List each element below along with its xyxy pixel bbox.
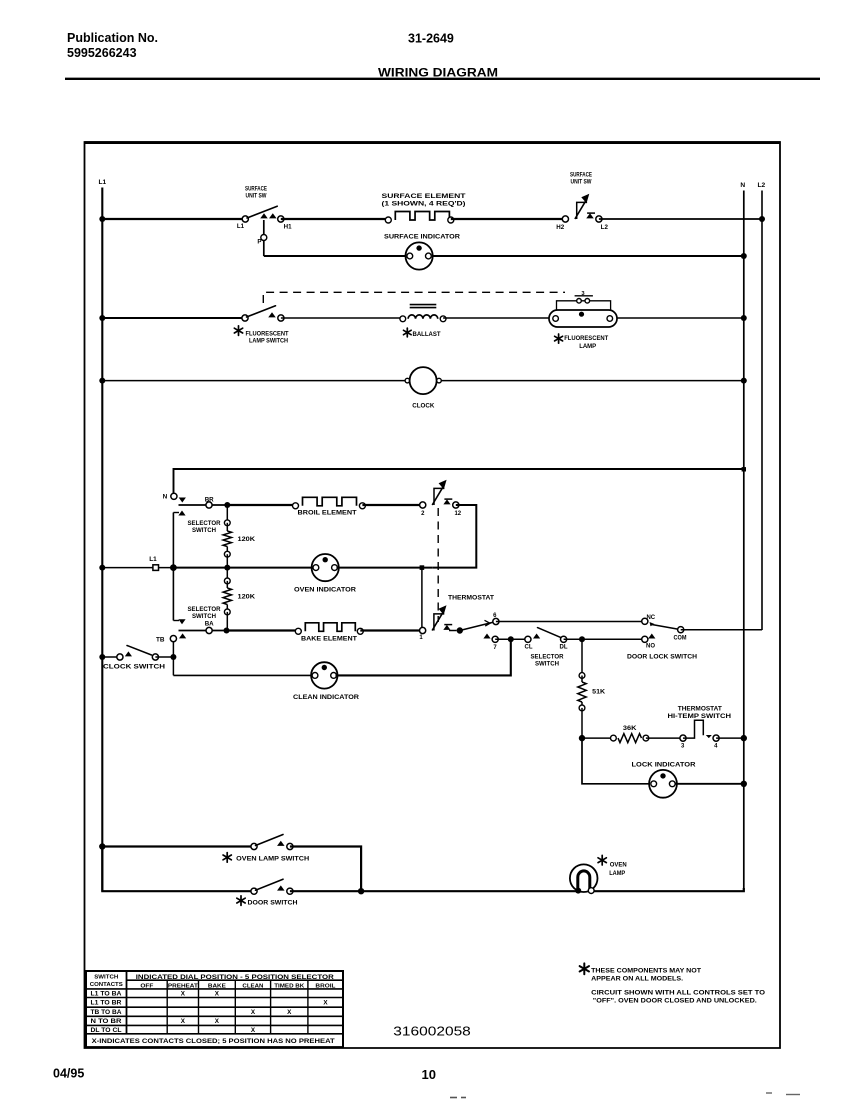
wire oven lamp switch to door row [290,847,361,892]
svg-text:BAKE ELEMENT: BAKE ELEMENT [301,636,357,643]
door lock switch [627,615,697,660]
svg-text:THERMOSTAT: THERMOSTAT [678,706,722,713]
surface element [382,193,466,223]
svg-text:31-2649: 31-2649 [408,32,454,46]
svg-text:HI-TEMP SWITCH: HI-TEMP SWITCH [668,713,732,720]
selector contact NO [642,634,656,650]
svg-text:P: P [257,238,261,245]
lamp surface indicator [384,234,460,270]
svg-text:FLUORESCENT: FLUORESCENT [564,335,608,342]
svg-text:36K: 36K [623,725,637,732]
wire L1 to oven lamp switch [99,843,254,849]
wire surface element to H2 [451,218,566,220]
svg-text:(1 SHOWN, 4 REQ'D): (1 SHOWN, 4 REQ'D) [382,200,466,207]
switch oven lamp switch [223,835,310,863]
clock motor [405,367,441,409]
svg-text:Publication No.: Publication No. [67,31,158,45]
wire L1 to surface unit switch [99,216,245,222]
wire bake element to thermostat 1 [360,629,422,631]
svg-text:L1: L1 [99,179,107,186]
svg-text:L1: L1 [149,556,157,563]
svg-text:N: N [163,494,168,501]
ballast inductor [400,305,446,338]
svg-text:CLOCK SWITCH: CLOCK SWITCH [103,664,165,671]
header rule [65,78,820,80]
note components asterisk [580,963,701,982]
svg-text:PREHEAT: PREHEAT [168,983,198,989]
svg-text:DOOR LOCK SWITCH: DOOR LOCK SWITCH [627,653,697,660]
svg-text:DL TO CL: DL TO CL [91,1027,122,1034]
wire 12 down to oven indicator row [433,505,477,568]
svg-text:SELECTOR: SELECTOR [188,606,222,613]
svg-text:BROIL ELEMENT: BROIL ELEMENT [298,510,357,517]
header title WIRING DIAGRAM [378,68,498,80]
svg-text:OVEN INDICATOR: OVEN INDICATOR [294,586,356,593]
switch surface unit sw left [237,186,292,231]
svg-text:LAMP SWITCH: LAMP SWITCH [249,338,288,345]
selector contact table [86,971,343,1047]
wire surface indicator to N bus [433,253,747,259]
thermostat label [448,595,494,602]
svg-text:OVEN LAMP SWITCH: OVEN LAMP SWITCH [236,855,310,862]
switch door switch [237,879,298,906]
node N label [740,182,745,189]
svg-text:TIMED BK: TIMED BK [274,983,305,989]
svg-text:L1 TO BR: L1 TO BR [91,1000,123,1007]
diagram border box [85,142,781,1048]
resistor 120K upper [223,505,255,568]
svg-text:5995266243: 5995266243 [67,46,137,60]
svg-text:UNIT SW: UNIT SW [246,193,268,200]
node BA [179,621,227,634]
selector contact 7 [483,634,498,651]
svg-text:APPEAR ON ALL MODELS.: APPEAR ON ALL MODELS. [591,976,683,983]
svg-text:L1: L1 [237,223,245,230]
wire oven feed top [174,467,747,496]
wire 51K junction down to lock indicator [582,738,652,784]
svg-text:120K: 120K [238,536,256,543]
svg-text:CONTACTS: CONTACTS [90,982,123,988]
svg-text:L2: L2 [601,224,609,231]
lamp oven lamp [570,855,627,893]
switch fluorescent lamp switch [234,306,288,345]
svg-text:CIRCUIT SHOWN WITH ALL CONTROL: CIRCUIT SHOWN WITH ALL CONTROLS SET TO [591,990,765,997]
thermostat hi-temp switch [668,706,732,750]
svg-text:THERMOSTAT: THERMOSTAT [448,595,494,602]
resistor 51K [578,639,606,738]
wire 7 to CL [495,636,528,642]
svg-text:H2: H2 [556,224,564,231]
wire L2 bus [761,191,763,631]
svg-text:UNIT SW: UNIT SW [571,179,593,186]
wire N bus [743,191,745,891]
thermostat upper contacts 2-12 [420,480,462,517]
wire H1 to surface element [281,218,389,220]
footer date [53,1067,84,1081]
svg-text:LAMP: LAMP [609,870,625,877]
wire TB down to clean row [172,642,174,676]
resistor 36K [579,725,649,743]
svg-text:L2: L2 [758,182,766,189]
wire 36K to hi-temp switch 3 [646,737,683,739]
wire oven indicator to corner [337,565,433,570]
wire clean indicator to selector junction [336,639,511,675]
selector switch pivot L1 [99,556,177,571]
svg-text:OVEN: OVEN [610,861,628,868]
switch surface unit sw right [556,171,608,231]
selector contacts CL DL [525,628,568,668]
svg-text:X-INDICATES CONTACTS CLOSED; 5: X-INDICATES CONTACTS CLOSED; 5 POSITION … [92,1038,335,1045]
svg-text:NO: NO [646,644,655,650]
wire broil element to thermostat 2 [362,504,422,506]
wire L1 to clock [99,378,409,384]
wire switch to ballast [281,317,403,319]
wire BR to broil element [224,502,295,508]
wire oven lamp to N bus corner [594,888,744,891]
thermostat contact 6 [493,613,499,624]
svg-text:SELECTOR: SELECTOR [188,520,222,527]
wire P to surface indicator [264,255,406,257]
selector switch bracket [173,511,221,625]
svg-text:SELECTOR: SELECTOR [531,653,565,660]
node L2 label [758,182,766,189]
svg-text:04/95: 04/95 [53,1067,84,1081]
wire ballast to fluorescent lamp [443,317,549,319]
footer page number [422,1068,437,1082]
svg-text:OFF: OFF [140,983,153,989]
svg-text:TB TO BA: TB TO BA [91,1009,123,1016]
wire L1 bus [101,188,103,892]
wire clock to N bus [441,378,747,384]
svg-text:SWITCH: SWITCH [94,974,118,980]
wire BA to bake element [224,628,299,634]
svg-text:SWITCH: SWITCH [192,527,217,534]
lamp clean indicator [293,662,359,701]
wire door switch to oven lamp [290,888,577,894]
svg-text:CL: CL [525,645,533,651]
svg-text:10: 10 [422,1068,437,1082]
svg-text:N TO BR: N TO BR [91,1018,123,1025]
bake element [295,623,363,643]
svg-text:COM: COM [674,635,687,641]
resistor 120K lower [223,568,255,631]
svg-text:CLEAN INDICATOR: CLEAN INDICATOR [293,694,359,701]
svg-text:L1 TO BA: L1 TO BA [91,991,123,998]
svg-text:LOCK INDICATOR: LOCK INDICATOR [632,761,696,768]
note circuit shown [591,990,765,1005]
svg-text:316002058: 316002058 [393,1025,471,1039]
svg-text:SURFACE INDICATOR: SURFACE INDICATOR [384,234,460,241]
svg-text:"OFF". OVEN DOOR CLOSED AND UN: "OFF". OVEN DOOR CLOSED AND UNLOCKED. [593,998,757,1005]
svg-text:INDICATED DIAL POSITION - 5 PO: INDICATED DIAL POSITION - 5 POSITION SEL… [136,974,335,981]
wire 6 to NC [496,621,645,623]
svg-text:SWITCH: SWITCH [535,661,560,668]
wire 4 to N bus [716,735,747,741]
selector switch contact TB [156,633,186,643]
node BR [179,497,228,509]
svg-text:LAMP: LAMP [579,343,596,350]
header publication number [67,31,158,60]
wire DL to NO [564,636,645,642]
svg-text:THESE COMPONENTS MAY NOT: THESE COMPONENTS MAY NOT [591,968,701,975]
selector switch contact N [163,493,186,502]
svg-text:BAKE: BAKE [208,983,226,989]
node L1 label [99,179,107,186]
svg-text:SURFACE: SURFACE [245,186,268,193]
fluorescent lamp [549,291,617,350]
dashed mechanical link thermostat [437,508,439,622]
svg-text:BA: BA [205,621,214,628]
wire L1 corner to door switch [102,847,254,892]
svg-text:SURFACE ELEMENT: SURFACE ELEMENT [382,193,466,200]
svg-text:BALLAST: BALLAST [413,331,441,338]
svg-text:DOOR SWITCH: DOOR SWITCH [248,899,299,906]
svg-text:FLUORESCENT: FLUORESCENT [246,330,289,337]
svg-text:51K: 51K [592,689,605,696]
thermostat lower contact 1 and blade [419,605,492,641]
scan artifact dashes [450,1093,800,1098]
part number 316002058 [393,1025,471,1039]
node P tap [257,220,266,256]
svg-text:SURFACE: SURFACE [570,171,593,178]
wire L1 to fluorescent lamp switch [99,315,245,321]
svg-text:NC: NC [646,615,655,621]
header document number 31-2649 [408,32,454,46]
svg-text:CLEAN: CLEAN [242,983,263,989]
lamp lock indicator [632,761,696,797]
wire lock indicator to N bus [675,781,748,787]
clock switch [99,646,176,671]
dashed mechanical link fluorescent [263,292,565,303]
svg-text:DL: DL [560,645,568,651]
wire pivot to oven indicator [173,565,314,571]
svg-text:CLOCK: CLOCK [412,403,435,410]
broil element [293,497,366,516]
lamp oven indicator [294,554,356,593]
svg-text:12: 12 [454,511,461,517]
svg-text:TB: TB [156,636,165,643]
svg-text:BROIL: BROIL [315,983,335,989]
wire L2 contact to L2 bus [599,216,765,222]
svg-text:120K: 120K [238,594,256,601]
wire junction down to thermostat 1 [421,568,423,628]
svg-text:N: N [740,182,745,189]
svg-text:H1: H1 [284,223,292,230]
wire COM to L2 bus [681,629,762,631]
wire to clean indicator [173,674,311,676]
wire fluorescent lamp to N bus [617,315,747,321]
svg-text:SWITCH: SWITCH [192,613,217,620]
